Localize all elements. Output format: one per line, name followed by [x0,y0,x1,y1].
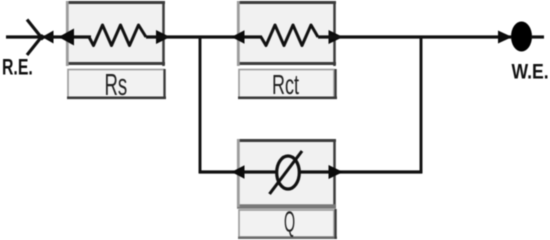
wire main top segment 1 [42,35,90,38]
label box Q [238,209,337,239]
CPE Q symbol slash [270,151,303,194]
resistor Rs terminal arrowhead left [59,29,75,46]
resistor Rs terminal arrowhead right [156,30,170,44]
CPE Q box [237,139,336,207]
CPE Q terminal arrowhead right [329,165,344,179]
svg-text:Rs: Rs [105,68,128,102]
svg-text:Q: Q [284,206,295,238]
resistor Rct box [237,1,336,66]
resistor Rct zigzag [261,25,318,46]
label box Rct [238,69,337,99]
label box Rs [67,69,166,99]
wire main top segment 3 [318,35,511,38]
wire lower branch left [199,170,277,173]
wire R.E. lead [6,35,40,38]
wire lower branch right [299,170,422,173]
arrowhead at R.E. input [42,31,54,44]
terminal W.E. dot [511,22,532,52]
wire branch right vertical [420,37,423,173]
resistor Rs zigzag [89,25,146,46]
wire branch left vertical [199,37,202,173]
svg-text:Rct: Rct [272,69,299,100]
wire inside Rct left [241,35,262,38]
wire main top segment 2 [146,35,262,38]
svg-text:R.E.: R.E. [2,56,33,80]
resistor Rs box [66,1,165,66]
CPE Q terminal arrowhead left [232,165,245,179]
wire inside Rs left [70,35,91,38]
resistor Rct terminal arrowhead right [329,30,344,44]
terminal R.E. chevron [27,20,43,56]
CPE Q symbol circle [277,156,300,189]
arrowhead at W.E. output [498,31,512,44]
svg-text:W.E.: W.E. [512,60,549,84]
resistor Rct terminal arrowhead left [232,30,245,44]
wire W.E. stub [531,35,544,38]
